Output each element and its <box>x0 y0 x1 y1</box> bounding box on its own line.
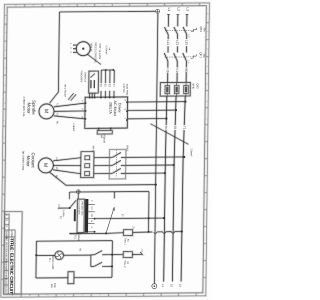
primary bottom elbow <box>69 231 80 234</box>
fuse FU1 <box>123 230 132 236</box>
svg-text:C: C <box>49 4 52 6</box>
svg-text:DELTA: DELTA <box>108 102 112 114</box>
svg-text:L21: L21 <box>175 40 179 45</box>
spindle motor M1 circle <box>39 104 54 119</box>
fuse FU2 wire and hook <box>132 252 142 255</box>
work lamp EL1 circle <box>55 251 64 260</box>
QS1 linkage dashed line <box>165 29 194 31</box>
title block row lines col B <box>9 229 15 231</box>
rail L2 upper <box>176 14 179 26</box>
fuse FU2 line <box>112 253 123 255</box>
wire number L11 <box>166 39 170 46</box>
svg-text:L1: L1 <box>167 8 171 12</box>
svg-text:30A: 30A <box>203 27 206 32</box>
PE earth symbol top <box>156 9 160 13</box>
FR1 heater elements <box>85 156 90 160</box>
spindle motor lead V1 <box>54 110 85 113</box>
svg-text:W: W <box>81 116 83 118</box>
control wire labels <box>99 83 102 91</box>
coolant lead W2 <box>53 170 81 174</box>
transformer primary winding box <box>77 199 84 233</box>
rail L2 lower <box>172 96 176 282</box>
rail L1 upper <box>167 14 170 26</box>
terminal block NFB box <box>160 82 190 96</box>
switch pair node left <box>90 255 93 267</box>
bottom terminal PE circle <box>152 284 157 289</box>
svg-text:NFB: NFB <box>191 83 195 88</box>
svg-text:+10V AVI: +10V AVI <box>122 83 125 93</box>
transformer PE symbol <box>76 190 80 194</box>
right tie vertical <box>111 241 114 278</box>
svg-text:Fuse 2: Fuse 2 <box>123 260 125 268</box>
coolant lead U2 <box>53 158 81 161</box>
contactor KM1 pole 2 <box>109 164 113 166</box>
rail L2 mid upper <box>176 35 179 53</box>
svg-text:TC1: TC1 <box>74 235 77 240</box>
svg-text:0.75mm²: 0.75mm² <box>105 45 108 54</box>
transformer left stub wire <box>58 207 70 209</box>
rail L3 to terminal block <box>185 61 188 83</box>
primary connection from PE line <box>77 194 79 200</box>
switch wires to drive <box>88 93 90 97</box>
svg-text:2A: 2A <box>126 261 129 264</box>
svg-text:M: M <box>42 163 48 167</box>
svg-text:L2: L2 <box>177 7 181 11</box>
breaker QF1 pole 1 <box>164 53 168 61</box>
QF1 handle squiggle <box>191 54 197 58</box>
drive right terminal dots <box>126 101 128 103</box>
svg-text:TC: TC <box>59 216 62 219</box>
svg-text:NO. REVISION RECORD: NO. REVISION RECORD <box>5 238 7 263</box>
svg-text:5A: 5A <box>126 239 129 242</box>
svg-text:0 110 220 380V: 0 110 220 380V <box>78 201 80 216</box>
svg-text:FR-1: FR-1 <box>91 146 95 152</box>
svg-text:L3: L3 <box>186 7 190 11</box>
title block row lines col A <box>5 213 9 215</box>
control wire 2 <box>104 70 107 97</box>
transformer feed wire upper <box>69 190 149 193</box>
wire number U11 <box>166 68 170 73</box>
drive input wire S <box>127 109 176 112</box>
KM1 linkage dashed <box>115 150 117 177</box>
braking resistor <box>97 130 112 134</box>
NFB fuse element 2 <box>174 85 179 93</box>
coolant wire to L2 <box>126 164 173 167</box>
svg-text:W1: W1 <box>184 68 188 73</box>
spindle motor lead U1 <box>54 103 85 107</box>
motor cable slash marks <box>68 93 74 100</box>
lamp line right <box>64 254 91 257</box>
svg-text:KM-1: KM-1 <box>126 145 130 152</box>
wire number L31 <box>184 39 188 46</box>
control bus top wire <box>101 69 114 71</box>
rail top terminal ticks <box>167 14 170 16</box>
switch SB2 lower <box>91 265 94 267</box>
svg-text:BR: BR <box>100 135 102 139</box>
title block column lines <box>7 214 10 294</box>
FWD/REV switch SA2 box <box>89 71 99 93</box>
svg-text:1.5mm²: 1.5mm² <box>72 123 75 131</box>
wire number L21 <box>175 39 179 46</box>
transformer bottom wire with hops <box>69 232 106 235</box>
svg-text:SWITCH: SWITCH <box>83 72 86 82</box>
svg-text:Motor: Motor <box>26 156 31 168</box>
breaker QF1 pole 3 <box>183 53 187 61</box>
svg-text:QF1: QF1 <box>199 52 203 58</box>
drive input wire T <box>127 117 166 120</box>
svg-text:Motor: Motor <box>26 103 31 115</box>
control wire 3 <box>108 70 111 97</box>
rail L1 lower <box>164 96 167 282</box>
PE wire top horizontal <box>59 10 155 13</box>
svg-text:T1: T1 <box>182 126 186 130</box>
FR1 to KM1 wires <box>94 156 109 159</box>
KM1 box outline <box>109 149 126 179</box>
rail L3 lower <box>181 96 185 282</box>
svg-text:QS1: QS1 <box>199 26 203 32</box>
svg-text:FWD/REV: FWD/REV <box>80 71 83 83</box>
coolant motor M2 circle <box>38 158 53 173</box>
breaker QF1 pole 2 <box>173 53 177 61</box>
svg-text:AC Motor: AC Motor <box>113 100 117 116</box>
switch node right <box>108 253 112 255</box>
svg-text:RP1 1K: RP1 1K <box>89 43 92 52</box>
lamp pinwheel blades <box>56 252 63 259</box>
transformer core bar <box>85 199 89 233</box>
wire number W11 <box>184 67 188 72</box>
disconnect switch QS1 pole 3 <box>183 27 187 35</box>
thermal overload FR1 box <box>81 152 94 178</box>
wire after FU1 with hops to L3 <box>133 231 153 234</box>
svg-text:3ph 0.09kW 0.25A: 3ph 0.09kW 0.25A <box>21 151 24 171</box>
svg-text:S1: S1 <box>173 126 177 130</box>
transformer left terminal dot <box>69 207 71 209</box>
lamp bottom wire <box>36 277 68 280</box>
svg-text:0.75kW 380V 2.8A: 0.75kW 380V 2.8A <box>22 97 25 117</box>
rail L3 mid upper <box>185 34 188 52</box>
svg-text:DRAWN: DRAWN <box>4 263 7 272</box>
NFB element terminal stubs <box>166 83 168 86</box>
coolant wire to L1 <box>126 172 165 175</box>
svg-text:U1: U1 <box>166 68 170 72</box>
svg-text:PRI 380V 50Hz: PRI 380V 50Hz <box>80 202 82 216</box>
svg-text:D: D <box>63 294 66 296</box>
title block outline <box>4 212 23 295</box>
svg-text:M: M <box>43 109 49 113</box>
contactor KM1 pole 1 <box>109 156 113 158</box>
disconnect switch QS1 pole 1 <box>164 27 168 35</box>
svg-text:15A: 15A <box>202 53 205 58</box>
spindle motor lead W1 <box>54 116 85 119</box>
sheet inner frame <box>4 6 207 294</box>
QF1 linkage dashed line <box>165 56 194 58</box>
vertical tie wire right <box>147 191 150 231</box>
sheet outer border <box>1 3 210 297</box>
rail L2 to terminal block <box>176 61 179 83</box>
transformer secondary tap stubs <box>88 203 95 205</box>
coolant wire to L3 <box>126 156 184 159</box>
coolant motor PE wire <box>49 171 156 185</box>
svg-text:L31: L31 <box>185 40 189 45</box>
drive left terminal dots <box>85 102 87 104</box>
rail wire numbers <box>164 125 168 130</box>
switch SA1 stub <box>113 192 115 199</box>
speed potentiometer RP1 circle <box>76 42 90 56</box>
svg-text:(Option): (Option) <box>103 135 106 144</box>
NFB fuse element 1 <box>165 86 170 94</box>
switch SA1 blade <box>106 207 114 233</box>
svg-text:50W: 50W <box>53 283 55 289</box>
NFB fuse element 3 <box>184 85 189 93</box>
rail L1 to terminal block <box>166 61 169 83</box>
lamp circuit left drop <box>35 241 38 278</box>
svg-text:WORK LAMP: WORK LAMP <box>51 255 54 270</box>
AC motor drive U1 box <box>85 97 128 128</box>
frame zone tick marks <box>4 23 7 25</box>
SA2 inner contacts <box>90 80 92 88</box>
primary left winding bar <box>74 209 76 221</box>
disconnect switch QS1 pole 2 <box>174 27 178 35</box>
PE rail vertical <box>154 14 158 284</box>
wire number V11 <box>175 67 179 72</box>
RP1 leader line <box>87 54 101 65</box>
SA1 arrowhead <box>113 207 114 210</box>
svg-text:DATE: DATE <box>4 279 7 285</box>
svg-text:POT 1K 1/2W: POT 1K 1/2W <box>98 44 101 60</box>
svg-text:Fuse 1: Fuse 1 <box>124 238 126 246</box>
svg-text:QS2: QS2 <box>196 83 200 89</box>
control wire 4 <box>113 70 116 97</box>
svg-text:MODEL: E-6920: MODEL: E-6920 <box>10 231 13 249</box>
lamp transformer rect <box>68 272 74 284</box>
svg-text:R1: R1 <box>164 126 168 130</box>
fuse FU2 <box>123 252 132 258</box>
QS1 handle squiggle <box>191 28 197 32</box>
rail L3 upper <box>186 14 189 27</box>
rail L1 mid upper <box>167 35 170 53</box>
switch SB1 upper <box>91 254 94 256</box>
control wire 1 <box>100 70 103 97</box>
drive top terminal dots <box>89 97 91 99</box>
spindle motor PE riser <box>50 12 60 103</box>
lamp line <box>36 254 55 257</box>
lamp feed wire <box>36 239 112 242</box>
svg-text:Driver: Driver <box>117 103 121 114</box>
contactor KM1 pole 3 <box>109 172 113 174</box>
svg-text:SCALE: SCALE <box>4 286 7 294</box>
svg-text:4G 0.75mm²: 4G 0.75mm² <box>63 84 66 97</box>
svg-text:ACM FWD: ACM FWD <box>125 84 128 96</box>
RP1 terminal stubs <box>74 44 77 46</box>
cable callout leader <box>150 123 189 144</box>
svg-text:D: D <box>67 4 70 6</box>
drive input wire R <box>128 100 186 103</box>
svg-text:24V: 24V <box>50 284 52 289</box>
svg-text:2.5mm²: 2.5mm² <box>190 148 193 156</box>
svg-text:C: C <box>46 294 49 296</box>
tap wire 220 to L1 <box>96 217 164 220</box>
coolant lead V2 <box>53 164 81 167</box>
braking resistor stubs <box>98 128 100 130</box>
svg-text:V1: V1 <box>175 68 179 72</box>
svg-text:L11: L11 <box>166 40 170 45</box>
